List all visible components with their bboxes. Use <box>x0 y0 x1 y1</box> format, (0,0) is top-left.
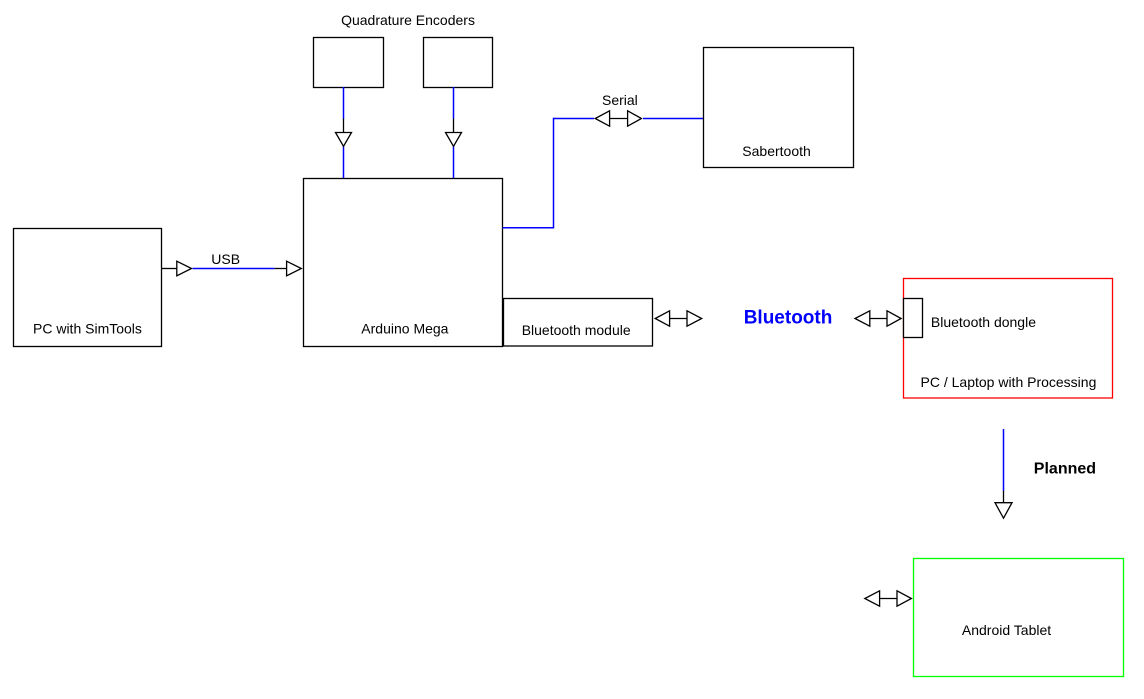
svg-text:Sabertooth: Sabertooth <box>742 143 811 159</box>
svg-text:PC with SimTools: PC with SimTools <box>33 321 142 337</box>
svg-text:USB: USB <box>211 251 240 267</box>
svg-text:Bluetooth: Bluetooth <box>744 308 833 329</box>
svg-text:Serial: Serial <box>602 92 638 108</box>
svg-text:Android Tablet: Android Tablet <box>962 622 1051 638</box>
svg-text:Arduino Mega: Arduino Mega <box>361 321 448 337</box>
svg-text:Bluetooth module: Bluetooth module <box>522 322 631 338</box>
svg-text:Planned: Planned <box>1034 461 1096 478</box>
svg-text:Bluetooth dongle: Bluetooth dongle <box>931 314 1036 330</box>
svg-text:PC / Laptop with Processing: PC / Laptop with Processing <box>921 374 1097 390</box>
svg-text:Quadrature Encoders: Quadrature Encoders <box>341 12 475 28</box>
